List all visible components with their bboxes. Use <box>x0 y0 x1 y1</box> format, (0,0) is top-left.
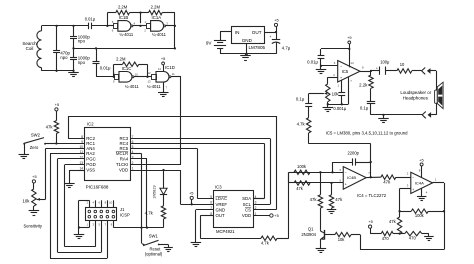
svg-text:Q1: Q1 <box>308 226 314 231</box>
svg-text:2.2M: 2.2M <box>116 56 126 61</box>
svg-text:2.2M: 2.2M <box>151 4 161 9</box>
svg-text:IC3: IC3 <box>215 185 222 190</box>
svg-text:2N3904: 2N3904 <box>301 232 316 237</box>
svg-text:0.1μ: 0.1μ <box>360 106 369 111</box>
svg-text:IC4A: IC4A <box>415 181 424 186</box>
svg-text:47k: 47k <box>389 219 397 224</box>
svg-text:npo: npo <box>60 55 68 60</box>
svg-text:+5: +5 <box>32 174 36 179</box>
svg-text:IC1C: IC1C <box>122 66 132 71</box>
svg-text:SCL: SCL <box>243 202 252 207</box>
svg-text:VREF: VREF <box>216 202 228 207</box>
svg-text:−: − <box>345 171 347 175</box>
svg-text:IC5 = LM380, pins 3,4,5,10,11,: IC5 = LM380, pins 3,4,5,10,11,12 to grou… <box>326 131 408 136</box>
svg-text:Zero: Zero <box>30 145 39 150</box>
svg-text:4.7k: 4.7k <box>297 121 306 126</box>
svg-text:IC1D: IC1D <box>165 65 175 70</box>
svg-text:47k: 47k <box>383 179 391 184</box>
svg-text:10k: 10k <box>22 199 30 204</box>
svg-text:2200p: 2200p <box>348 151 360 156</box>
svg-text:Sensitivity: Sensitivity <box>23 224 42 229</box>
svg-text:LDAC: LDAC <box>216 196 228 201</box>
svg-text:OUT: OUT <box>216 213 226 218</box>
svg-text:GND: GND <box>216 208 226 213</box>
svg-text:+: + <box>412 188 414 192</box>
svg-text:SW2: SW2 <box>31 133 41 138</box>
svg-text:IC1A: IC1A <box>152 15 162 20</box>
svg-text:Loudspeaker or: Loudspeaker or <box>400 90 431 95</box>
svg-text:14: 14 <box>158 67 162 71</box>
svg-text:IC5: IC5 <box>342 69 349 74</box>
svg-text:¼-4011: ¼-4011 <box>147 84 162 89</box>
svg-text:0.1μ: 0.1μ <box>296 96 305 101</box>
svg-text:1N5819: 1N5819 <box>153 185 157 198</box>
svg-text:CS: CS <box>245 208 251 213</box>
svg-text:(optional): (optional) <box>145 251 163 256</box>
svg-text:470: 470 <box>409 236 417 241</box>
svg-text:5: 5 <box>210 195 212 199</box>
svg-text:RA2: RA2 <box>86 151 95 156</box>
svg-text:+5: +5 <box>419 158 423 163</box>
svg-text:0.01μ: 0.01μ <box>100 66 111 71</box>
svg-text:4.7μ: 4.7μ <box>282 45 291 50</box>
svg-text:VSS: VSS <box>86 168 95 173</box>
svg-text:+5: +5 <box>274 18 278 23</box>
svg-text:4.7k: 4.7k <box>261 240 270 245</box>
svg-text:9V: 9V <box>206 40 213 45</box>
svg-text:npo: npo <box>78 39 86 44</box>
svg-text:2.2k: 2.2k <box>359 82 368 87</box>
svg-text:SW1: SW1 <box>149 233 159 238</box>
svg-text:+: + <box>345 183 347 187</box>
svg-text:+: + <box>376 66 378 70</box>
svg-text:T1CKI: T1CKI <box>116 162 128 167</box>
svg-text:PIC16F688: PIC16F688 <box>86 185 109 190</box>
svg-text:SDA: SDA <box>242 196 251 201</box>
svg-text:npo: npo <box>78 60 86 65</box>
svg-text:47k: 47k <box>296 186 304 191</box>
svg-text:+5: +5 <box>161 56 165 61</box>
svg-text:+: + <box>340 76 342 80</box>
svg-text:0.001μ: 0.001μ <box>333 106 346 111</box>
svg-text:−: − <box>412 176 414 180</box>
svg-text:100μ: 100μ <box>380 60 390 65</box>
svg-text:Coil: Coil <box>26 46 34 51</box>
svg-text:OUT: OUT <box>252 30 262 35</box>
svg-text:10: 10 <box>400 62 405 67</box>
svg-text:2.2M: 2.2M <box>118 4 128 9</box>
svg-text:¼-4011: ¼-4011 <box>152 32 167 37</box>
svg-text:+: + <box>269 35 271 39</box>
svg-text:13: 13 <box>147 80 151 84</box>
svg-text:PGD: PGD <box>86 162 95 167</box>
svg-text:47k: 47k <box>335 197 343 202</box>
svg-text:12: 12 <box>147 71 151 75</box>
svg-text:100k: 100k <box>297 164 307 169</box>
svg-text:LM7805: LM7805 <box>249 45 266 50</box>
svg-text:470: 470 <box>382 236 390 241</box>
svg-text:10k: 10k <box>338 237 346 242</box>
svg-text:RA4: RA4 <box>120 157 129 162</box>
svg-text:10: 10 <box>135 72 139 76</box>
svg-text:Headphones: Headphones <box>403 96 429 101</box>
svg-text:MCP4921: MCP4921 <box>216 229 235 234</box>
svg-text:PGC: PGC <box>86 157 95 162</box>
svg-text:11: 11 <box>172 72 175 76</box>
svg-text:14: 14 <box>79 166 83 170</box>
svg-text:IC1B: IC1B <box>119 15 129 20</box>
svg-text:10k: 10k <box>332 91 340 96</box>
svg-text:0.01μ: 0.01μ <box>307 59 318 64</box>
svg-text:14: 14 <box>351 61 355 65</box>
svg-text:−: − <box>340 65 342 69</box>
svg-text:47k: 47k <box>310 197 318 202</box>
svg-text:4.7k: 4.7k <box>145 211 154 216</box>
svg-text:VDD: VDD <box>242 213 251 218</box>
svg-text:+5: +5 <box>274 213 278 218</box>
svg-text:IC4 = TLC2272: IC4 = TLC2272 <box>357 193 387 198</box>
svg-text:6: 6 <box>210 201 212 205</box>
svg-text:+5: +5 <box>189 191 193 196</box>
svg-text:J1: J1 <box>120 207 125 212</box>
svg-text:0.01μ: 0.01μ <box>85 16 96 21</box>
svg-text:+5: +5 <box>368 219 372 224</box>
svg-text:IC2: IC2 <box>87 121 94 126</box>
svg-text:100k: 100k <box>415 213 425 218</box>
svg-text:VDD: VDD <box>119 168 128 173</box>
svg-text:47k: 47k <box>46 125 54 130</box>
svg-text:¼-4011: ¼-4011 <box>125 84 140 89</box>
svg-text:+5: +5 <box>55 102 59 107</box>
svg-text:+9: +9 <box>347 35 351 40</box>
svg-text:¼-4011: ¼-4011 <box>119 32 134 37</box>
svg-text:IN: IN <box>235 30 240 35</box>
svg-text:GND: GND <box>242 38 253 43</box>
svg-text:10: 10 <box>109 201 113 205</box>
svg-text:MCLR: MCLR <box>116 151 128 156</box>
svg-text:ICSP: ICSP <box>120 213 130 218</box>
svg-text:1: 1 <box>132 166 134 170</box>
svg-text:IC4B: IC4B <box>347 175 356 180</box>
